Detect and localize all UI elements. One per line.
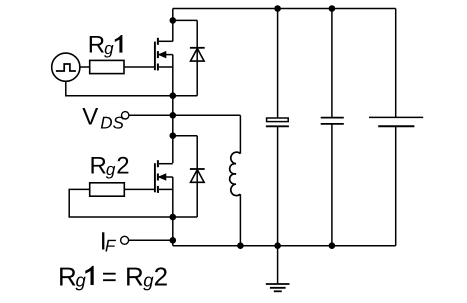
wire: D1 vertical lead — [196, 20, 198, 95]
wire: IF terminal to Q2 source column — [129, 239, 173, 241]
inductor L1 — [230, 115, 241, 245]
node: inductor bottom junction — [237, 242, 244, 249]
wire: VDS terminal to inductor top — [129, 114, 240, 116]
wire: Q2 source column — [172, 177, 174, 246]
wire: bottom rail — [173, 245, 396, 247]
node: C1 top rail junction — [274, 5, 281, 12]
svg-text:2: 2 — [116, 153, 129, 180]
wire: Q1 drain column — [172, 9, 174, 42]
resistor R1 (Rg1) — [90, 60, 124, 73]
svg-text:g: g — [104, 39, 114, 58]
wire: Rg2 to Q2 gate — [124, 188, 155, 190]
diode D1 (body diode of Q1) — [190, 48, 205, 61]
svg-text:=: = — [102, 261, 117, 291]
wire: switch-node column (Q1 source to Q2 drain) — [172, 55, 174, 164]
wire: Rg2 kelvin return loop — [69, 189, 197, 217]
node: C2 top rail junction — [329, 5, 336, 12]
terminal VDS — [122, 112, 129, 119]
svg-text:g: g — [106, 160, 116, 179]
wire: D1 cathode branch — [173, 19, 197, 21]
svg-text:R: R — [88, 32, 105, 59]
wire: pulse source return to Q1 source node — [66, 81, 173, 95]
battery V1 — [369, 9, 423, 246]
node: IF junction — [170, 237, 177, 244]
svg-text:V: V — [82, 103, 98, 130]
node: D2 cathode junction — [170, 132, 177, 139]
svg-text:g: g — [143, 269, 154, 290]
resistor R2 (Rg2) — [90, 183, 125, 196]
transistor Q1 (high-side MOSFET) — [155, 38, 173, 71]
capacitor C2 — [321, 9, 344, 246]
pulse generator source G1 — [52, 53, 80, 81]
node: C1 bottom rail junction — [274, 242, 281, 249]
svg-text:F: F — [105, 236, 117, 255]
svg-text:R: R — [90, 153, 107, 180]
node: Q2 source junction — [170, 214, 177, 221]
node: Q1 drain / D1 cathode junction — [170, 17, 177, 24]
node: Q1 source junction — [170, 92, 177, 99]
svg-text:g: g — [76, 269, 87, 290]
svg-text:2: 2 — [154, 261, 168, 291]
wire: top positive rail — [173, 8, 396, 10]
wire: D2 vertical lead — [196, 136, 198, 217]
transistor Q2 (low-side MOSFET) — [155, 160, 173, 193]
wire: Rg1 to Q1 gate — [124, 66, 155, 68]
ground — [266, 246, 290, 292]
wire: pulse source to Rg1 — [80, 66, 90, 68]
svg-text:R: R — [125, 261, 144, 291]
terminal IF — [121, 236, 129, 244]
svg-text:R: R — [58, 261, 77, 291]
wire: D2 cathode branch — [173, 135, 197, 137]
node: VDS junction on switch column — [170, 112, 177, 119]
capacitor C1 (electrolytic) — [266, 9, 289, 246]
node: C2 bottom rail junction — [329, 242, 336, 249]
wire: D1 anode branch to source node — [173, 95, 197, 97]
svg-text:DS: DS — [100, 114, 124, 133]
diode D2 (body diode of Q2) — [190, 169, 205, 182]
